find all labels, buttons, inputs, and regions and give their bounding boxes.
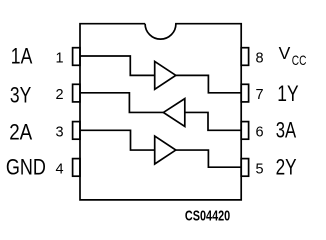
- svg-text:8: 8: [255, 50, 263, 66]
- svg-text:7: 7: [255, 87, 263, 103]
- svg-text:2Y: 2Y: [276, 154, 297, 179]
- buffer gate 1: [155, 61, 176, 89]
- svg-text:1A: 1A: [11, 43, 33, 68]
- svg-text:GND: GND: [6, 155, 46, 180]
- svg-text:3: 3: [55, 124, 63, 140]
- pin 4 box: [73, 159, 80, 177]
- svg-text:5: 5: [255, 161, 263, 177]
- pin 5 box: [241, 159, 248, 177]
- pin 8 box: [241, 48, 248, 66]
- buffer gate 3 (points left): [163, 99, 184, 127]
- svg-text:1: 1: [55, 50, 63, 66]
- svg-text:1Y: 1Y: [277, 81, 299, 106]
- wire buffer 1 output to pin7 1Y: [176, 75, 241, 92]
- svg-text:CC: CC: [292, 52, 307, 68]
- wire pin2 3Y from buffer 3 output: [80, 93, 163, 113]
- wire pin1 1A to buffer 1 input: [80, 56, 155, 75]
- wire pin3 2A to buffer 2 input: [80, 130, 155, 150]
- svg-text:3Y: 3Y: [10, 83, 32, 108]
- wire pin6 3A to buffer 3 input: [185, 112, 241, 130]
- svg-text:V: V: [279, 43, 291, 63]
- svg-text:CS04420: CS04420: [185, 209, 230, 225]
- pin 7 box: [241, 84, 248, 102]
- package body U1 (DIP-8 outline with index notch): [80, 24, 241, 200]
- svg-text:6: 6: [255, 124, 263, 140]
- wire buffer 2 output to pin5 2Y: [176, 150, 241, 167]
- buffer gate 2: [155, 136, 176, 164]
- svg-text:2: 2: [55, 87, 63, 103]
- pin 1 box: [73, 48, 80, 66]
- svg-text:2A: 2A: [9, 119, 32, 144]
- svg-text:4: 4: [55, 161, 63, 177]
- svg-text:3A: 3A: [276, 118, 297, 143]
- pin 2 box: [73, 84, 80, 102]
- pin 3 box: [73, 122, 80, 140]
- pin 6 box: [241, 122, 248, 140]
